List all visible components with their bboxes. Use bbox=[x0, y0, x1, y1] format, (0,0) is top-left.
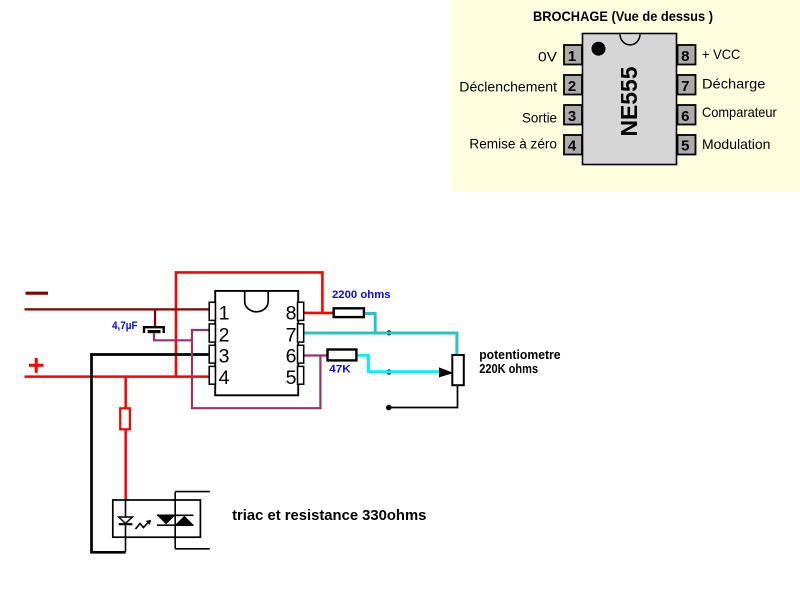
IC U1 pin 3 box bbox=[209, 345, 215, 363]
pinout pin 2 bbox=[564, 75, 582, 95]
resistor R2 47K bbox=[328, 350, 357, 361]
pinout pin 3 bbox=[564, 105, 582, 125]
svg-text:3: 3 bbox=[219, 346, 230, 368]
svg-text:3: 3 bbox=[568, 108, 576, 125]
svg-text:2: 2 bbox=[568, 78, 576, 95]
terminal dot potentiometer bottom bbox=[386, 405, 392, 411]
triac T1 bottom stub bbox=[175, 548, 210, 550]
svg-text:1: 1 bbox=[219, 303, 230, 325]
wire red R3 to optocoupler bbox=[124, 429, 127, 500]
svg-text:Déclenchement: Déclenchement bbox=[459, 78, 557, 94]
IC U1 schematic body bbox=[215, 291, 298, 395]
svg-text:8: 8 bbox=[286, 303, 297, 325]
minus terminal symbol bbox=[26, 292, 49, 295]
svg-text:4,7µF: 4,7µF bbox=[112, 320, 138, 332]
svg-text:BROCHAGE (Vue de dessus ): BROCHAGE (Vue de dessus ) bbox=[533, 8, 713, 24]
LED D1 top lead bbox=[125, 500, 127, 517]
svg-text:potentiometre: potentiometre bbox=[479, 347, 560, 362]
IC U1 pin 7 box bbox=[298, 324, 304, 342]
wire red pin8 to R1 bbox=[304, 312, 334, 315]
svg-text:7: 7 bbox=[286, 324, 297, 346]
pinout pin 7 bbox=[678, 75, 696, 95]
svg-text:Remise à zéro: Remise à zéro bbox=[469, 136, 557, 152]
wire purple pin6 to R2 bbox=[304, 354, 328, 356]
wire cyan R2 to wiper bbox=[356, 355, 439, 371]
resistor R1 2200 ohms bbox=[334, 308, 364, 317]
capacitor C1 top plate bbox=[144, 327, 164, 333]
svg-text:2: 2 bbox=[219, 324, 230, 346]
IC U1 pin 8 box bbox=[298, 302, 304, 320]
svg-text:6: 6 bbox=[681, 108, 689, 125]
pinout pin 5 bbox=[678, 135, 696, 155]
potentiometer P1 body bbox=[452, 355, 464, 385]
wire red + rail bbox=[25, 375, 210, 378]
svg-text:8: 8 bbox=[681, 48, 689, 65]
svg-text:4: 4 bbox=[219, 367, 230, 389]
svg-text:6: 6 bbox=[286, 346, 297, 368]
IC U1 pin 1 box bbox=[209, 302, 215, 320]
svg-text:5: 5 bbox=[286, 367, 297, 389]
LED D1 bottom lead bbox=[125, 524, 127, 552]
wire cyan pin7 to potentiometer top bbox=[304, 333, 457, 355]
svg-text:220K ohms: 220K ohms bbox=[479, 361, 538, 376]
IC U1 schematic notch bbox=[245, 292, 269, 312]
pinout pin 1 bbox=[564, 45, 582, 65]
IC U1 pinout body bbox=[583, 34, 677, 165]
capacitor C1 bottom plate bbox=[148, 330, 161, 333]
wire black potentiometer bottom bbox=[389, 385, 458, 407]
junction dot on wiper line bbox=[386, 369, 391, 374]
pinout pin-1 dot bbox=[592, 42, 606, 56]
svg-text:5: 5 bbox=[681, 138, 689, 155]
IC U1 pin 6 box bbox=[298, 345, 304, 363]
resistor R3 330ohms bbox=[120, 408, 130, 429]
wire maroon 0V rail to pin1 bbox=[25, 308, 210, 310]
wire cyan R1 to pin7 line bbox=[364, 314, 375, 334]
svg-text:triac et resistance 330ohms: triac et resistance 330ohms bbox=[232, 507, 426, 524]
svg-text:7: 7 bbox=[681, 78, 689, 95]
pinout pin 6 bbox=[678, 105, 696, 125]
IC U1 pin 5 box bbox=[298, 366, 304, 384]
triac T1 top rail bbox=[157, 514, 194, 516]
svg-text:47K: 47K bbox=[329, 364, 350, 376]
svg-text:Comparateur: Comparateur bbox=[702, 104, 777, 120]
triac T1 left triangle bbox=[157, 515, 175, 524]
wire red to R3 bbox=[124, 375, 127, 408]
potentiometer P1 wiper arrow bbox=[439, 367, 454, 377]
IC U1 pin 4 box bbox=[209, 366, 215, 384]
triac T1 right triangle bbox=[175, 516, 193, 525]
svg-text:0V: 0V bbox=[538, 48, 558, 64]
triac T1 vertical lead bbox=[174, 492, 176, 549]
junction dot on pin7 line bbox=[386, 330, 391, 335]
wire purple capacitor to pin2 node bbox=[154, 333, 192, 340]
LED D1 triangle bbox=[119, 517, 133, 523]
triac T1 top stub bbox=[175, 491, 210, 493]
pinout panel background bbox=[451, 0, 800, 192]
svg-text:2200 ohms: 2200 ohms bbox=[332, 289, 391, 301]
optocoupler U2 box bbox=[113, 500, 201, 537]
svg-text:Sortie: Sortie bbox=[522, 109, 557, 125]
wire red top loop pin4 to pin8 bbox=[176, 272, 322, 376]
svg-text:1: 1 bbox=[568, 48, 576, 65]
IC U1 pin 2 box bbox=[209, 324, 215, 342]
LED D1 cathode bar bbox=[119, 523, 133, 525]
opto arrow head bbox=[146, 520, 151, 525]
wire black pin3 to optocoupler LED bbox=[92, 355, 210, 553]
svg-text:NE555: NE555 bbox=[616, 66, 642, 136]
wire maroon to capacitor C1 bbox=[154, 309, 156, 326]
svg-text:4: 4 bbox=[568, 138, 577, 155]
opto arrow symbol bbox=[136, 521, 150, 529]
pinout pin 8 bbox=[678, 45, 696, 65]
svg-text:+ VCC: + VCC bbox=[702, 46, 740, 62]
svg-text:Modulation: Modulation bbox=[702, 136, 770, 152]
triac T1 bottom rail bbox=[157, 524, 194, 526]
wire purple pin2 loop to pin6 bbox=[192, 330, 320, 408]
svg-text:Décharge: Décharge bbox=[702, 75, 766, 91]
plus terminal symbol bbox=[29, 358, 44, 373]
pinout notch bbox=[620, 34, 640, 45]
pinout pin 4 bbox=[564, 135, 582, 155]
